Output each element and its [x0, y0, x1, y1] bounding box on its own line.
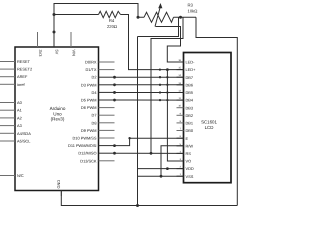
pin D0	[85, 60, 114, 65]
pin N/C	[0, 173, 24, 178]
node DB6 wire bendpoints	[159, 84, 169, 86]
svg-text:D8: D8	[92, 120, 97, 125]
wire pot right lead	[174, 16, 197, 18]
node trunk to rail junction	[136, 204, 139, 207]
pin DB5	[177, 90, 194, 96]
svg-text:D0/RX: D0/RX	[85, 60, 97, 65]
pin D12	[78, 151, 114, 156]
node D5 pin end	[113, 99, 116, 102]
node D2 pin end	[113, 76, 116, 79]
pin RESET	[0, 59, 31, 64]
node DB7 wire bendpoints	[159, 76, 169, 78]
svg-text:220Ω: 220Ω	[107, 24, 117, 29]
node R4 tap junction	[53, 13, 56, 16]
wire terrace T5 to D12 column	[151, 17, 183, 153]
svg-text:A1: A1	[17, 108, 22, 113]
svg-text:DB4: DB4	[186, 98, 194, 103]
wire VO feed	[167, 70, 183, 161]
pin D2	[92, 75, 115, 80]
pin DB3	[177, 105, 194, 111]
pin DB6	[177, 82, 194, 88]
pin D13	[80, 158, 114, 163]
svg-text:A0: A0	[17, 100, 23, 105]
svg-text:RS: RS	[186, 151, 192, 156]
svg-text:R4: R4	[109, 18, 115, 23]
svg-text:VDD: VDD	[186, 166, 194, 171]
pin A5/SCL	[0, 139, 31, 144]
node D11 pin end	[113, 144, 116, 147]
pin D5	[81, 98, 115, 103]
wire D11 to E riser	[115, 138, 130, 145]
wire D3 to DB6	[115, 84, 184, 86]
wire D5 to DB4	[115, 99, 184, 101]
pin DB7	[177, 74, 194, 80]
node D4 pin end	[113, 91, 116, 94]
wire 5V riser	[54, 4, 144, 33]
wire terrace T3 to trunk	[138, 17, 179, 36]
wire VDD horizontal	[138, 168, 184, 170]
svg-text:DB5: DB5	[186, 90, 194, 95]
node 5V pin junction	[53, 31, 56, 34]
svg-text:A3: A3	[17, 123, 22, 128]
svg-text:RESET: RESET	[17, 59, 31, 64]
svg-text:LED-: LED-	[186, 60, 196, 65]
pin D10	[73, 136, 115, 141]
svg-text:D5 PWM: D5 PWM	[81, 98, 97, 103]
pin D4	[92, 90, 115, 95]
pin D8	[92, 120, 115, 125]
svg-text:A2: A2	[17, 115, 22, 120]
svg-text:DB2: DB2	[186, 113, 194, 118]
pin ioref	[0, 82, 25, 87]
pin VSS	[177, 173, 194, 179]
pin AREF	[0, 74, 28, 79]
svg-text:LCD: LCD	[205, 125, 214, 130]
wire R4 to LED+	[121, 15, 184, 70]
wire D4 to DB5	[115, 91, 184, 93]
svg-text:DB6: DB6	[186, 82, 194, 87]
pin VDD	[177, 166, 194, 172]
svg-text:R3: R3	[188, 3, 194, 8]
pin DB0	[177, 128, 194, 134]
svg-text:D11 PWM/MOSI: D11 PWM/MOSI	[68, 143, 96, 148]
pin DB2	[177, 112, 194, 118]
pin D11	[68, 143, 114, 148]
svg-text:N/C: N/C	[17, 173, 24, 178]
wire GND bottom rail	[61, 191, 237, 206]
svg-text:R/W: R/W	[186, 143, 194, 148]
svg-text:A4/SDA: A4/SDA	[17, 131, 31, 136]
svg-text:(Rev3): (Rev3)	[51, 117, 65, 122]
pin D3	[81, 82, 115, 87]
potentiometer R3	[144, 3, 197, 27]
svg-text:3V3: 3V3	[38, 50, 43, 57]
svg-text:E: E	[186, 136, 189, 141]
svg-text:10kΩ: 10kΩ	[188, 9, 198, 14]
svg-text:D4: D4	[92, 90, 98, 95]
wire GND staircase right	[196, 17, 237, 205]
wire R/W to VSS column	[161, 146, 184, 176]
wire R4 lead left	[54, 14, 99, 16]
svg-text:DB0: DB0	[186, 128, 194, 133]
pin E	[177, 135, 189, 141]
wire GND trunk column	[137, 37, 139, 206]
wire D12 to RS	[115, 152, 184, 154]
pin A2	[0, 115, 22, 120]
svg-text:5V: 5V	[55, 50, 60, 55]
pin D7	[92, 113, 115, 118]
wire VSS horizontal	[138, 175, 184, 177]
svg-text:DB3: DB3	[186, 105, 194, 110]
svg-text:D1/TX: D1/TX	[85, 67, 96, 72]
node pot left junction	[137, 16, 140, 19]
pin LED-	[177, 59, 196, 65]
pin RESET2	[0, 67, 32, 72]
svg-text:D12/MISO: D12/MISO	[78, 151, 96, 156]
svg-text:VSS: VSS	[186, 174, 194, 179]
op-amp U1	[15, 47, 99, 191]
node E riser bend	[128, 137, 130, 139]
op-amp U2	[184, 53, 232, 183]
pin D9	[81, 128, 115, 133]
resistor R4	[99, 11, 121, 29]
svg-text:DB7: DB7	[186, 75, 194, 80]
pin A1	[0, 108, 22, 113]
svg-text:D3 PWM: D3 PWM	[81, 82, 97, 87]
pin VO	[177, 158, 192, 164]
svg-text:VO: VO	[186, 159, 192, 164]
wire D2 to DB7	[115, 76, 184, 78]
svg-text:AREF: AREF	[17, 74, 28, 79]
svg-text:D9 PWM: D9 PWM	[81, 128, 97, 133]
pin 3V3	[38, 32, 44, 56]
svg-text:SC1601: SC1601	[201, 120, 217, 125]
svg-text:A5/SCL: A5/SCL	[17, 139, 31, 144]
node DB5 wire bendpoints	[159, 91, 169, 93]
svg-text:D7: D7	[92, 113, 97, 118]
pin LED+	[177, 67, 197, 73]
pin RS	[177, 150, 192, 156]
pin A4/SDA	[0, 131, 31, 136]
pin DB1	[177, 120, 194, 126]
node DB4 wire bendpoints	[159, 99, 169, 101]
svg-text:D2: D2	[92, 75, 97, 80]
svg-text:GND: GND	[56, 180, 61, 189]
node LED+ junction	[166, 68, 169, 71]
svg-text:LED+: LED+	[186, 67, 197, 72]
node D12 pin end	[113, 152, 116, 155]
node D3 pin end	[113, 83, 116, 86]
pin VIN	[71, 32, 77, 56]
pin A0	[0, 100, 23, 105]
pin R/W	[177, 143, 194, 149]
pin DB4	[177, 97, 194, 103]
wire E horizontal	[130, 137, 184, 139]
svg-text:ioref: ioref	[17, 82, 25, 87]
pin D6	[81, 105, 115, 110]
svg-text:D13/SCK: D13/SCK	[80, 158, 97, 163]
node LED+ bendpoint	[159, 68, 161, 70]
svg-text:DB1: DB1	[186, 121, 194, 126]
svg-text:VIN: VIN	[72, 50, 77, 57]
node VSS junction	[160, 175, 163, 178]
svg-text:D10 PWM/SS: D10 PWM/SS	[73, 136, 97, 141]
svg-text:D6 PWM: D6 PWM	[81, 105, 97, 110]
pin D1	[85, 67, 114, 72]
pin A3	[0, 123, 22, 128]
pin 5V	[54, 32, 60, 55]
node pot right junction	[179, 16, 182, 19]
pin GND	[56, 180, 61, 196]
wire pot wiper drop	[156, 27, 184, 63]
svg-text:RESET2: RESET2	[17, 67, 32, 72]
node RS junction	[150, 152, 153, 155]
node VDD junction	[166, 167, 169, 170]
